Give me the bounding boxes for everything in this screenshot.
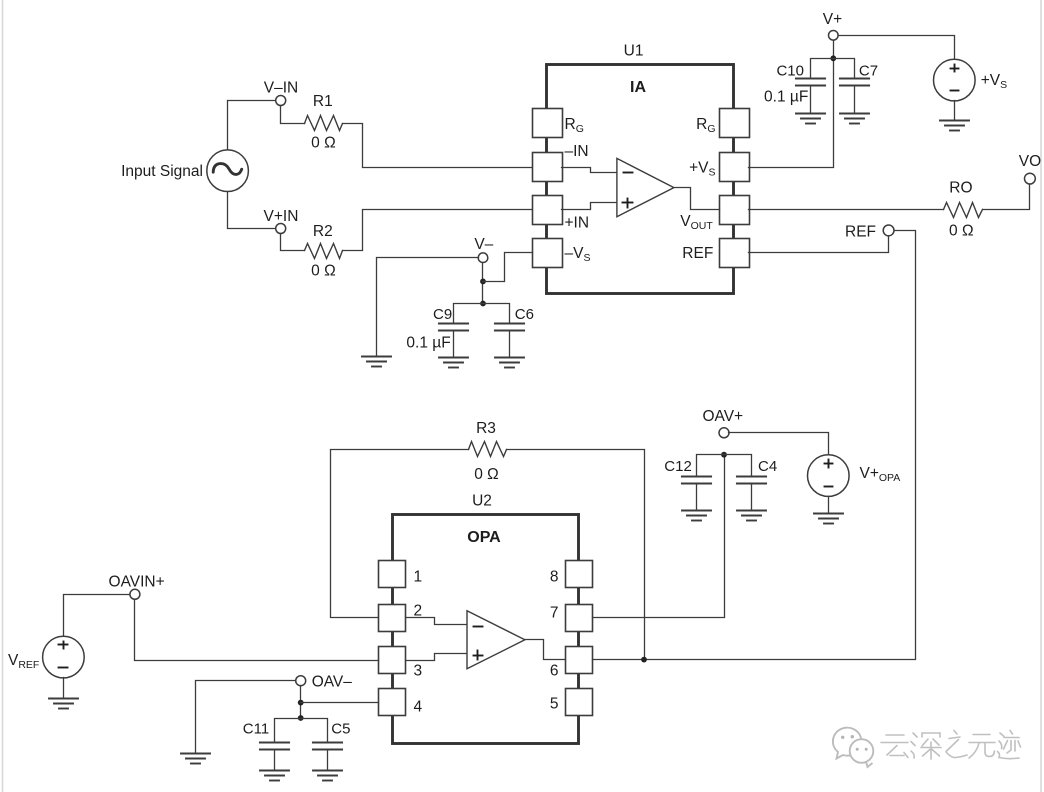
wire REF pin to REF node	[749, 237, 889, 253]
ground C12	[682, 511, 711, 521]
wire C12 to ground	[696, 484, 698, 511]
junction OAV+	[721, 452, 727, 458]
pin U2 1	[379, 561, 406, 588]
source VREF	[43, 636, 85, 678]
svg-text:RO: RO	[949, 180, 972, 197]
wire V- to left ground	[377, 258, 479, 357]
svg-text:OAV+: OAV+	[702, 408, 743, 425]
junction V- upper	[480, 279, 486, 285]
pin U2 4	[379, 689, 406, 716]
svg-text:C10: C10	[776, 63, 804, 80]
plus input mark U1	[623, 199, 633, 208]
op-amp U2 box	[393, 515, 579, 744]
node V-IN	[276, 96, 286, 106]
wire OAV- to left ground	[196, 681, 296, 754]
wire -IN pin to triangle	[562, 168, 617, 173]
wire R1 to -IN pin	[343, 124, 533, 168]
wire junction to -VS pin	[483, 253, 533, 282]
svg-text:6: 6	[550, 663, 559, 680]
wire pin2 to triangle	[407, 618, 467, 625]
capacitor C4	[737, 477, 766, 484]
svg-text:R1: R1	[313, 93, 333, 110]
svg-text:U1: U1	[624, 43, 644, 60]
ground OAV- left	[181, 754, 210, 764]
capacitor C7	[840, 79, 869, 86]
svg-text:C7: C7	[859, 63, 878, 80]
svg-text:V–: V–	[474, 236, 493, 253]
minus input mark U2	[474, 626, 483, 628]
svg-text:1: 1	[414, 569, 423, 586]
svg-text:VO: VO	[1019, 153, 1041, 170]
wire C5 to ground	[327, 751, 329, 771]
wire C4 to ground	[751, 484, 753, 511]
ground C6	[495, 358, 524, 368]
node V-	[478, 253, 488, 263]
svg-text:C11: C11	[243, 721, 269, 738]
capacitor C11	[260, 743, 289, 750]
node V+IN	[276, 224, 286, 234]
svg-text:+IN: +IN	[565, 215, 590, 232]
node REF	[883, 225, 894, 236]
ground +VS source	[940, 121, 969, 131]
svg-text:REF: REF	[845, 223, 876, 240]
svg-text:C12: C12	[664, 458, 692, 475]
svg-text:0 Ω: 0 Ω	[949, 223, 974, 240]
ground C11	[260, 771, 289, 781]
wire junction to C11	[275, 719, 301, 743]
wire junction to C6	[483, 304, 510, 324]
capacitor C10	[796, 79, 825, 86]
svg-text:0 Ω: 0 Ω	[311, 263, 336, 280]
resistor R2	[305, 244, 343, 259]
op-amp triangle U1	[617, 158, 674, 216]
pin U1 -IN	[533, 153, 563, 182]
pin U1 -VS	[533, 239, 563, 268]
svg-text:C5: C5	[331, 721, 350, 738]
wire V+OPA to ground	[828, 497, 830, 514]
wire V-IN to R1	[281, 106, 305, 124]
wire OAVIN+ down to pin3	[135, 600, 379, 661]
wire REF node down to pin6 rail	[645, 231, 916, 660]
wire triangle output to VOUT pin	[674, 188, 720, 210]
wire junction to C7	[834, 59, 855, 79]
ground C5	[313, 771, 342, 781]
pin U2 3	[379, 647, 406, 674]
wire junction to C9	[454, 304, 483, 324]
pin U2 2	[379, 605, 406, 632]
wire C11 to ground	[274, 751, 276, 771]
wire R3 right down to pin6 junction	[507, 450, 645, 660]
wire OAV+ junction to C4	[725, 455, 752, 477]
wire VOUT pin to RO	[749, 209, 944, 211]
capacitor C9	[439, 324, 468, 331]
node OAVIN+	[130, 589, 140, 599]
wire VREF to ground	[63, 678, 65, 699]
node VO	[1025, 173, 1036, 184]
svg-text:0.1 µF: 0.1 µF	[764, 89, 808, 106]
capacitor C12	[682, 477, 711, 484]
source V+OPA	[808, 455, 850, 497]
junction OAV- upper	[298, 700, 304, 706]
wire source top to V-IN	[228, 101, 276, 150]
pin U1 +IN	[533, 196, 563, 225]
pin U1 +VS	[720, 153, 750, 182]
op-amp triangle U2	[467, 611, 525, 669]
wire pin3 to triangle	[407, 654, 467, 661]
svg-text:8: 8	[550, 569, 559, 586]
wire V+IN to R2	[281, 234, 305, 251]
wire C9 to ground	[453, 332, 455, 358]
junction V- lower	[480, 301, 486, 307]
wire pin6 to junction	[593, 659, 645, 661]
capacitor C6	[495, 324, 524, 331]
node OAV-	[296, 676, 306, 686]
pin U1 RG right	[720, 109, 750, 138]
wire C6 to ground	[509, 332, 511, 358]
pin U1 REF	[720, 239, 750, 268]
wire OAVIN+ to VREF source	[64, 595, 130, 637]
svg-text:R3: R3	[476, 420, 496, 437]
watermark logo	[833, 728, 873, 767]
wire junction to C5	[301, 719, 328, 743]
svg-text:REF: REF	[682, 245, 713, 262]
wire R3 left to pin2	[331, 450, 469, 618]
node OAV+	[719, 428, 729, 438]
node V+	[829, 31, 839, 41]
junction below V+	[830, 55, 836, 61]
pin U1 RG left	[533, 109, 563, 138]
source Input Signal	[207, 150, 249, 192]
minus input mark U1	[624, 172, 633, 174]
svg-text:V–IN: V–IN	[264, 80, 298, 97]
wire C10 to ground	[810, 86, 812, 114]
wire junction to pin4	[301, 702, 379, 704]
svg-text:OPA: OPA	[467, 529, 501, 546]
svg-text:–IN: –IN	[565, 143, 589, 160]
svg-text:0 Ω: 0 Ω	[474, 466, 499, 483]
ground V+OPA	[814, 514, 843, 524]
wire V+ to +VS source	[839, 36, 955, 60]
ground C7	[840, 114, 869, 124]
wire OAV+ to source	[729, 433, 829, 455]
resistor R1	[305, 116, 343, 131]
pin U1 VOUT	[720, 196, 750, 225]
wire triangle output to pin6	[525, 640, 566, 660]
wire OAV+ junction to C12	[697, 455, 725, 477]
plus input mark U2	[474, 651, 483, 660]
svg-text:C4: C4	[758, 458, 777, 475]
wire +VS source to ground	[954, 101, 956, 121]
ground C4	[737, 511, 766, 521]
pin U2 7	[566, 605, 593, 632]
wire C7 to ground	[854, 86, 856, 114]
capacitor C5	[313, 743, 342, 750]
page right border	[1040, 0, 1042, 792]
svg-text:0 Ω: 0 Ω	[311, 135, 336, 152]
resistor RO	[944, 203, 983, 218]
svg-text:V+IN: V+IN	[264, 208, 299, 225]
page left border	[2, 0, 4, 792]
svg-text:V+: V+	[823, 11, 842, 28]
wire pin7 up to OAV+	[593, 455, 725, 618]
svg-text:4: 4	[414, 699, 423, 716]
source +VS	[934, 59, 976, 101]
svg-text:C9: C9	[433, 306, 452, 323]
svg-text:OAVIN+: OAVIN+	[109, 574, 165, 591]
op-amp U1 box	[547, 65, 734, 294]
wire OAV- down	[300, 686, 302, 719]
svg-text:R2: R2	[313, 223, 333, 240]
wire +IN pin to triangle	[562, 203, 617, 210]
wire source bottom to V+IN	[228, 192, 276, 229]
watermark text	[881, 731, 1021, 760]
pin U2 6	[566, 647, 593, 674]
wire junction to C10	[811, 59, 834, 79]
ground C10	[796, 114, 825, 124]
wire R2 to +IN pin	[343, 210, 533, 251]
svg-text:U2: U2	[472, 493, 492, 510]
wire +VS pin to V+ rail	[749, 41, 834, 168]
svg-text:Input Signal: Input Signal	[121, 163, 203, 180]
resistor R3	[469, 442, 507, 457]
svg-text:0.1 µF: 0.1 µF	[406, 335, 450, 352]
ground V- left	[362, 357, 391, 367]
svg-text:7: 7	[550, 605, 559, 622]
junction pin6	[641, 657, 647, 663]
pin U2 8	[566, 561, 593, 588]
svg-text:OAV–: OAV–	[312, 674, 353, 691]
svg-text:IA: IA	[630, 79, 646, 96]
wire RO to VO	[983, 185, 1030, 210]
svg-text:3: 3	[414, 663, 423, 680]
ground VREF	[49, 699, 78, 709]
ground C9	[439, 358, 468, 368]
svg-text:C6: C6	[515, 306, 534, 323]
wire V- down	[482, 263, 484, 304]
svg-text:5: 5	[550, 696, 559, 713]
pin U2 5	[566, 689, 593, 716]
junction OAV- lower	[298, 715, 304, 721]
